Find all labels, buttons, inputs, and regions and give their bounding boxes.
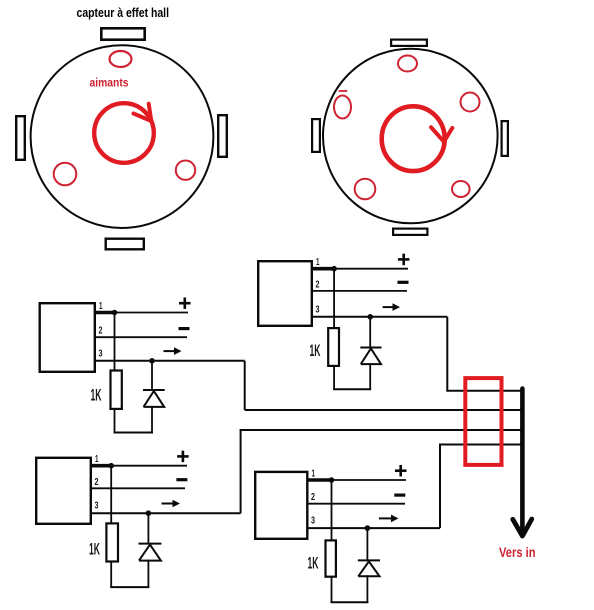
svg-text:1K: 1K (91, 387, 102, 405)
svg-text:3: 3 (99, 348, 103, 359)
svg-text:1: 1 (95, 454, 99, 465)
svg-text:1K: 1K (308, 555, 319, 573)
svg-text:3: 3 (95, 501, 99, 512)
svg-text:2: 2 (316, 279, 320, 290)
svg-text:1: 1 (99, 301, 103, 312)
svg-text:1: 1 (316, 257, 320, 268)
svg-text:Vers in: Vers in (499, 544, 536, 560)
svg-text:2: 2 (311, 492, 315, 503)
svg-text:1K: 1K (89, 541, 100, 559)
svg-text:1K: 1K (310, 342, 321, 360)
svg-text:1: 1 (312, 469, 316, 480)
svg-text:2: 2 (95, 477, 99, 488)
svg-text:2: 2 (99, 326, 103, 337)
svg-text:aimants: aimants (90, 76, 129, 90)
svg-text:3: 3 (311, 516, 315, 527)
svg-text:capteur à effet hall: capteur à effet hall (77, 6, 170, 20)
svg-text:3: 3 (316, 304, 320, 315)
